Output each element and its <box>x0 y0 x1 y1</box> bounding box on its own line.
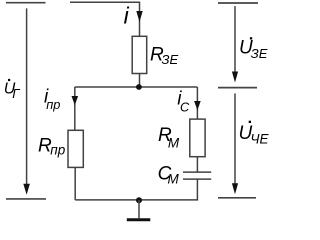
node junction middle <box>136 84 142 90</box>
svg-text:M: M <box>168 171 180 186</box>
svg-text:пр: пр <box>50 142 65 157</box>
wire R3E to node <box>139 74 141 88</box>
label Rpr <box>38 136 66 158</box>
voltage arrow U3E line <box>234 6 236 73</box>
svg-text:ЗЕ: ЗЕ <box>251 46 268 61</box>
current arrow Ipr head <box>72 96 79 105</box>
label CM <box>158 164 180 187</box>
label U4E <box>239 121 270 147</box>
node U3E-U4E-middle-bar <box>218 87 257 89</box>
svg-text:C: C <box>180 100 190 115</box>
label UG <box>4 79 21 101</box>
wire ground stub <box>138 200 140 218</box>
svg-text:Г: Г <box>12 86 20 101</box>
wire RM to CM <box>196 157 198 172</box>
wire middle horizontal <box>75 86 198 88</box>
node UG-top-bar <box>6 2 46 4</box>
resistor Rpr <box>68 130 83 167</box>
voltage arrow U3E head <box>232 72 238 83</box>
wire bottom horizontal <box>75 199 198 201</box>
voltage arrow U4E head <box>232 183 238 194</box>
capacitor CM bottom plate <box>183 178 211 180</box>
capacitor CM top plate <box>183 171 211 173</box>
label R3E <box>150 45 178 67</box>
label Ipr <box>44 87 60 112</box>
svg-text:пр: пр <box>46 97 60 112</box>
node junction ground <box>136 197 142 203</box>
wire top corner down to R3E <box>139 2 141 36</box>
resistor RM <box>190 119 205 157</box>
node U4E-bottom-bar <box>218 197 256 199</box>
current arrow IC head <box>194 101 201 110</box>
label IC <box>177 88 190 114</box>
label I <box>124 2 130 28</box>
svg-text:ЗЕ: ЗЕ <box>162 52 179 67</box>
wire top horizontal <box>70 1 140 3</box>
svg-text:M: M <box>168 136 180 151</box>
voltage arrow UG head <box>23 184 30 195</box>
svg-text:ЧЕ: ЧЕ <box>250 131 269 146</box>
voltage arrow U4E line <box>234 93 236 184</box>
label U3E <box>239 37 268 61</box>
wire CM to bottom <box>196 179 198 200</box>
node U3E-top-bar <box>218 2 258 4</box>
current arrow I head <box>136 11 142 22</box>
node UG-bottom-bar <box>6 198 46 200</box>
wire right branch upper <box>196 87 198 119</box>
label RM <box>158 125 180 151</box>
wire left branch upper <box>74 87 76 130</box>
ground <box>127 218 151 221</box>
voltage arrow UG line <box>26 8 28 187</box>
wire left branch lower <box>74 167 76 200</box>
resistor R3E <box>132 36 147 73</box>
svg-text:i: i <box>124 2 130 28</box>
